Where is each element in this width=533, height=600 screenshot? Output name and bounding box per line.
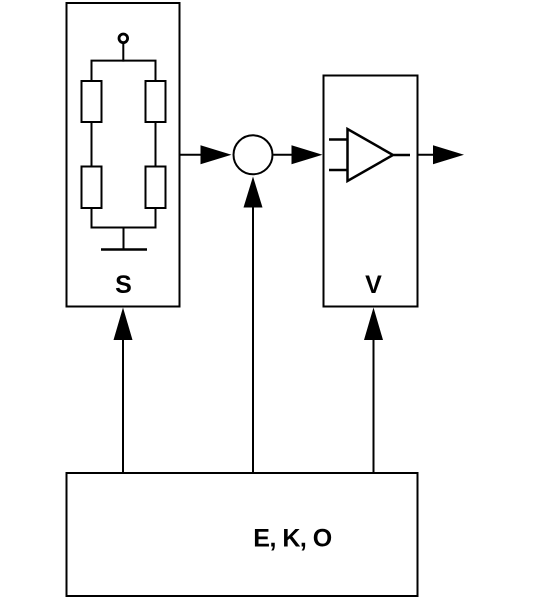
wire: amplifier input top <box>329 138 347 141</box>
wire: S output to summing node <box>181 154 204 156</box>
wire: influence to V <box>373 339 375 472</box>
resistor R2 (upper right bridge arm) <box>146 81 166 122</box>
ground <box>101 248 147 251</box>
wire: V block output <box>419 154 437 156</box>
bridge supply terminal (small circle) <box>119 34 128 43</box>
block V (amplifier block outline) <box>324 76 418 307</box>
svg-text:S: S <box>115 271 132 299</box>
wire: amplifier output <box>394 154 411 157</box>
block E,K,O (influence quantities block outline) <box>67 473 418 596</box>
svg-text:V: V <box>365 271 382 299</box>
resistor R3 (lower left bridge arm) <box>82 167 102 209</box>
arrowhead into V bottom <box>364 308 383 341</box>
wire: bridge top bus <box>92 61 156 82</box>
op-amp U1 (amplifier triangle) <box>348 129 394 181</box>
wire: ground stem <box>123 228 125 250</box>
wire: influence to summing node <box>252 207 254 473</box>
wire: influence to S <box>122 339 124 472</box>
wire: right mid branch <box>155 122 157 167</box>
arrowhead into summing node <box>201 145 232 164</box>
arrowhead into summing node bottom <box>244 177 263 208</box>
resistor R4 (lower right bridge arm) <box>146 167 166 209</box>
arrowhead into S bottom <box>114 308 133 341</box>
block S (sensor block outline) <box>67 3 180 307</box>
summing node (circle) <box>234 135 273 174</box>
wire: terminal stem <box>122 44 124 62</box>
arrowhead into block V <box>292 145 323 164</box>
wire: amplifier input bottom <box>329 169 347 172</box>
svg-text:E, K, O: E, K, O <box>253 525 332 553</box>
wire: bridge bottom bus <box>92 208 156 228</box>
arrowhead output <box>433 145 464 164</box>
wire: summing node to amplifier <box>274 154 295 156</box>
resistor R1 (upper left bridge arm) <box>82 81 102 122</box>
wire: left mid branch <box>91 122 93 167</box>
